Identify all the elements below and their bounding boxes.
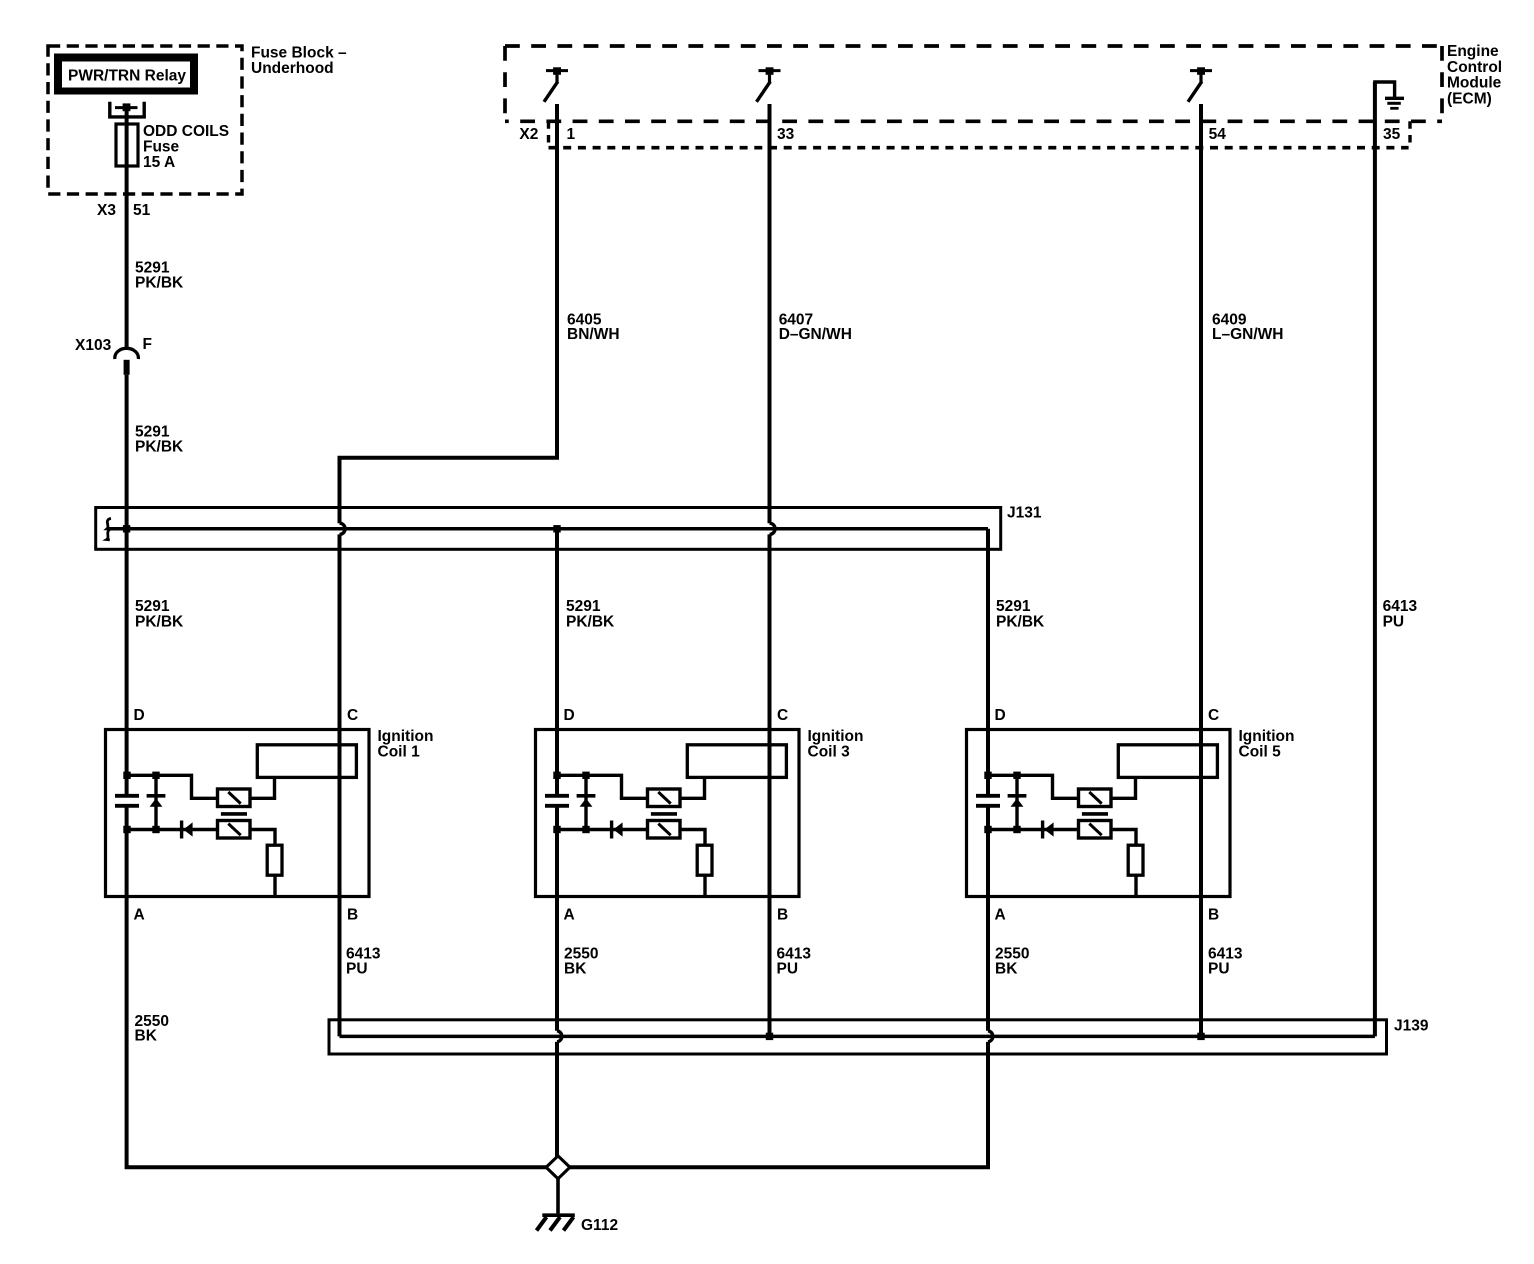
wire 2550 coil3 A to G112 diamond — [555, 1042, 559, 1157]
svg-text:PK/BK: PK/BK — [135, 275, 184, 292]
ground symbol G112 — [542, 1213, 575, 1217]
svg-text:Engine: Engine — [1447, 43, 1499, 60]
svg-text:D: D — [564, 707, 575, 724]
wire hop over J139 at coil3 A — [557, 1031, 562, 1042]
coil 1 capacitor — [115, 794, 139, 798]
ECM driver output pin 54 — [1190, 69, 1212, 72]
coil 5 transformer primary winding — [1079, 789, 1112, 807]
svg-text:C: C — [1208, 707, 1219, 724]
wire 5291 relay through fuse to X103 — [125, 107, 129, 349]
svg-text:X3: X3 — [97, 202, 116, 219]
coil 1 bottom internal wire — [127, 828, 218, 831]
wire 6409 ECM pin54 to coil5 C and B to J139 dot — [1199, 104, 1203, 1036]
svg-text:D: D — [995, 707, 1006, 724]
svg-text:B: B — [777, 907, 788, 924]
connector X2 strip left edge — [547, 121, 550, 147]
svg-text:G112: G112 — [581, 1217, 618, 1234]
svg-text:Coil 1: Coil 1 — [378, 744, 421, 761]
coil 5 diode — [1041, 821, 1044, 839]
coil 1 top internal wire — [127, 775, 218, 798]
ECM driver output pin 33 — [759, 69, 781, 72]
svg-text:BK: BK — [564, 961, 587, 978]
svg-text:F: F — [143, 336, 152, 353]
svg-text:BN/WH: BN/WH — [567, 326, 620, 343]
svg-text:A: A — [995, 907, 1006, 924]
wire 2550 coil5 A to J139 hop — [986, 807, 990, 1031]
fuse ODD COILS 15 A — [116, 124, 138, 166]
ignition coil 1 box — [106, 730, 370, 897]
splice J139 line — [340, 1035, 1375, 1039]
svg-text:Ignition: Ignition — [808, 728, 864, 745]
wire 5291 J131 to coil3 D — [555, 529, 559, 794]
coil 1 primary to tower wire — [250, 778, 275, 799]
coil 3 top internal wire — [557, 775, 648, 798]
coil 3 resistor — [697, 845, 712, 875]
svg-text:33: 33 — [777, 126, 795, 143]
coil 1 secondary to resistor wire — [250, 830, 275, 846]
junction dot J139 at coil3 B — [766, 1033, 773, 1040]
connector X103 male pin — [124, 360, 130, 375]
coil 5 zener diode — [1015, 775, 1018, 829]
svg-text:D–GN/WH: D–GN/WH — [779, 326, 852, 343]
svg-text:C: C — [777, 707, 788, 724]
svg-text:L–GN/WH: L–GN/WH — [1212, 326, 1283, 343]
svg-text:PK/BK: PK/BK — [135, 614, 184, 631]
svg-text:PU: PU — [1208, 961, 1230, 978]
splice J131 box — [96, 508, 1001, 550]
junction dot J131 at coil3 D — [553, 525, 560, 532]
svg-text:Underhood: Underhood — [251, 60, 334, 77]
coil 3 zener diode — [584, 775, 587, 829]
svg-text:X2: X2 — [519, 126, 538, 143]
wire 6407 J131 to coil3 C and B to J139 dot — [768, 534, 772, 1036]
coil 5 secondary to resistor wire — [1111, 830, 1136, 846]
coil 1 high voltage tower — [257, 745, 356, 778]
coil 3 junction dots — [553, 772, 560, 779]
coil 3 diode — [610, 821, 613, 839]
svg-text:J139: J139 — [1394, 1018, 1429, 1035]
coil 5 high voltage tower — [1118, 745, 1217, 778]
svg-text:Ignition: Ignition — [378, 728, 434, 745]
relay PWR/TRN Relay box — [54, 54, 198, 95]
ignition coil 3 box — [536, 730, 800, 897]
coil 1 junction dots — [123, 772, 130, 779]
coil 1 transformer primary winding — [218, 789, 251, 807]
svg-text:51: 51 — [133, 202, 151, 219]
coil 5 junction dots — [984, 772, 991, 779]
splice diamond at G112 — [546, 1156, 570, 1179]
wire hop over J139 at coil5 A — [988, 1031, 993, 1042]
svg-text:Ignition: Ignition — [1239, 728, 1295, 745]
coil 1 zener diode — [154, 775, 157, 829]
svg-text:PU: PU — [346, 961, 368, 978]
junction dot relay terminal — [123, 103, 131, 111]
splice J131 line with end hook — [107, 519, 111, 540]
svg-text:X103: X103 — [75, 337, 112, 354]
connector X2 strip right edge — [1408, 121, 1411, 147]
svg-text:B: B — [1208, 907, 1219, 924]
svg-text:BK: BK — [995, 961, 1018, 978]
connector X2 strip bottom dotted edge — [549, 146, 1409, 150]
coil 1 resistor — [267, 845, 282, 875]
coil 5 resistor — [1128, 845, 1143, 875]
junction dot J139 at coil5 B — [1197, 1033, 1204, 1040]
coil 3 high voltage tower — [687, 745, 786, 778]
svg-text:C: C — [347, 707, 358, 724]
svg-text:Control: Control — [1447, 59, 1502, 76]
coil 3 bottom internal wire — [557, 828, 648, 831]
junction dot J131 at 5291 feed — [123, 525, 130, 532]
wire hop over J131 at coil1 C — [340, 523, 346, 534]
svg-text:(ECM): (ECM) — [1447, 90, 1492, 107]
coil 1 transformer core — [221, 812, 247, 816]
svg-text:5291: 5291 — [135, 598, 170, 615]
wire diamond to ground G112 — [556, 1179, 560, 1214]
svg-text:5291: 5291 — [996, 598, 1031, 615]
coil 3 primary to tower wire — [680, 778, 705, 799]
svg-text:35: 35 — [1383, 126, 1401, 143]
coil 3 capacitor — [545, 794, 569, 798]
coil 5 capacitor — [976, 794, 1000, 798]
svg-text:A: A — [564, 907, 575, 924]
wire 6413 ECM pin35 to J139 right end — [1373, 82, 1377, 1036]
ignition coil 5 box — [967, 730, 1231, 897]
coil 5 top internal wire — [988, 775, 1079, 798]
coil 1 transformer secondary winding — [218, 821, 251, 839]
svg-text:D: D — [134, 707, 145, 724]
svg-text:15 A: 15 A — [143, 154, 175, 171]
coil 5 bottom internal wire — [988, 828, 1079, 831]
svg-text:J131: J131 — [1007, 505, 1042, 522]
wire 2550 coil5 A to G112 splice — [570, 1042, 988, 1167]
wire 2550 coil1 pin A to G112 splice — [127, 807, 546, 1167]
svg-text:PWR/TRN Relay: PWR/TRN Relay — [68, 68, 186, 85]
svg-text:PK/BK: PK/BK — [996, 614, 1045, 631]
splice J139 box — [329, 1020, 1387, 1054]
coil 5 primary to tower wire — [1111, 778, 1136, 799]
relay contact terminal bracket — [110, 102, 144, 117]
svg-text:Coil 3: Coil 3 — [808, 744, 851, 761]
svg-text:Fuse Block –: Fuse Block – — [251, 45, 347, 62]
coil 3 transformer secondary winding — [648, 821, 681, 839]
svg-text:ODD COILS: ODD COILS — [143, 123, 229, 140]
ECM driver output pin 1 — [546, 69, 568, 72]
wire 5291 J131 down to coil5 D — [986, 529, 990, 794]
svg-text:Module: Module — [1447, 75, 1502, 92]
coil 3 resistor to case wire — [703, 875, 706, 896]
svg-text:5291: 5291 — [566, 598, 601, 615]
ECM dashed box — [505, 44, 1442, 48]
svg-text:6413: 6413 — [1383, 598, 1418, 615]
wire 5291 X103 through J131 to coil1 capacitor — [125, 375, 129, 794]
coil 3 transformer core — [651, 812, 677, 816]
coil 1 resistor to case wire — [273, 875, 276, 896]
wire 6405 ECM pin1 jog toward coil1 C — [340, 104, 558, 523]
svg-text:PU: PU — [1383, 614, 1405, 631]
wire 2550 coil3 A to J139 hop — [555, 807, 559, 1031]
wire 6405 J131 to coil1 C and B to J139 — [338, 534, 342, 1036]
relay terminal crossbar — [115, 106, 138, 109]
wire hop over J131 at coil3 C — [770, 523, 776, 534]
svg-text:B: B — [347, 907, 358, 924]
fuse block underhood dashed box — [48, 46, 242, 194]
svg-text:PK/BK: PK/BK — [135, 439, 184, 456]
coil 5 transformer secondary winding — [1079, 821, 1112, 839]
svg-text:1: 1 — [567, 126, 576, 143]
svg-text:Coil 5: Coil 5 — [1239, 744, 1282, 761]
coil 5 resistor to case wire — [1134, 875, 1137, 896]
wire 6407 ECM pin33 to J131 hop — [768, 104, 772, 523]
ECM internal ground symbol pin 35 — [1375, 82, 1395, 97]
svg-text:PK/BK: PK/BK — [566, 614, 615, 631]
svg-text:54: 54 — [1209, 126, 1227, 143]
svg-text:BK: BK — [135, 1028, 158, 1045]
coil 5 transformer core — [1082, 812, 1108, 816]
connector X103 female arc — [115, 348, 139, 359]
coil 3 secondary to resistor wire — [680, 830, 705, 846]
coil 3 transformer primary winding — [648, 789, 681, 807]
coil 1 diode — [180, 821, 183, 839]
svg-text:A: A — [134, 907, 145, 924]
svg-text:Fuse: Fuse — [143, 139, 180, 156]
svg-text:PU: PU — [777, 961, 799, 978]
